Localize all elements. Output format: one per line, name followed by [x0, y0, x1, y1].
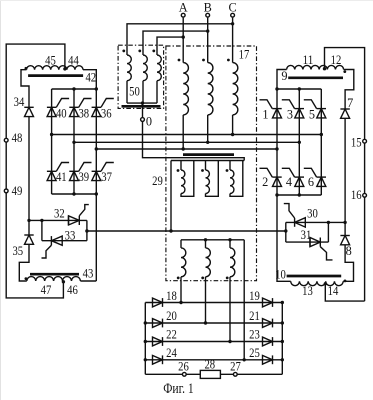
wire right column 5 — [320, 89, 322, 195]
svg-text:0: 0 — [146, 114, 152, 128]
wire phase bus 3 — [95, 147, 279, 150]
wire winding 13/14 tap — [325, 284, 364, 301]
wire feeder B to winding 50.2 — [143, 29, 209, 55]
node C terminal — [228, 0, 236, 17]
svg-text:24: 24 — [166, 346, 177, 360]
svg-text:8: 8 — [346, 244, 352, 258]
thyristor 31 — [301, 228, 333, 260]
winding 29.5 — [201, 240, 210, 279]
svg-text:29: 29 — [152, 174, 163, 188]
svg-text:43: 43 — [83, 266, 94, 280]
winding 50.3 — [152, 50, 161, 104]
svg-text:42: 42 — [85, 70, 96, 84]
svg-text:12: 12 — [331, 53, 342, 67]
svg-text:21: 21 — [249, 309, 260, 323]
thyristor 39 — [69, 163, 91, 184]
transformer 17 label — [239, 47, 250, 61]
winding 17.A — [178, 59, 189, 149]
svg-text:6: 6 — [308, 175, 314, 189]
wire row 20/21 — [145, 322, 282, 324]
svg-text:47: 47 — [41, 283, 52, 297]
core of transformer 50 — [122, 105, 161, 108]
diode 21 — [249, 309, 272, 328]
svg-text:Фиг. 1: Фиг. 1 — [163, 381, 194, 397]
node A terminal — [179, 0, 188, 17]
svg-text:11: 11 — [303, 53, 314, 67]
wire loop30 right side — [327, 222, 329, 242]
core of transformer 17 — [183, 153, 234, 156]
svg-text:19: 19 — [249, 289, 260, 303]
thyristor 3 — [282, 100, 304, 122]
wire loop32 bottom line — [42, 240, 87, 242]
diode 8 — [340, 236, 351, 259]
svg-text:B: B — [204, 0, 212, 14]
svg-text:22: 22 — [166, 328, 177, 342]
svg-text:40: 40 — [56, 106, 67, 120]
wire left column 2 — [73, 89, 75, 194]
wire winding12 to diode 7 — [344, 70, 354, 110]
node 26 terminal — [178, 359, 189, 376]
wire 0 line — [143, 122, 245, 161]
winding 17.B — [202, 59, 213, 143]
svg-text:45: 45 — [45, 53, 56, 67]
wire top-left link — [6, 44, 65, 298]
svg-text:5: 5 — [309, 107, 315, 121]
diode 20 — [153, 309, 177, 328]
svg-text:16: 16 — [351, 188, 362, 202]
thyristor 33 — [42, 228, 76, 258]
wire loop30 bottom line — [286, 241, 329, 243]
wire phase bus 2 — [72, 141, 301, 144]
wire left column 1 — [51, 89, 53, 194]
resistor 28 — [200, 357, 220, 378]
svg-text:13: 13 — [302, 284, 313, 298]
winding 17.C — [227, 59, 238, 135]
thyristor 32 — [54, 205, 89, 225]
wire winding45 to diode 34 — [21, 70, 29, 108]
svg-text:48: 48 — [12, 131, 23, 145]
wire 50 star point — [127, 101, 157, 104]
svg-text:10: 10 — [275, 268, 286, 282]
wire bottom right bus — [281, 301, 284, 375]
core of transformer 42 — [28, 70, 96, 84]
wire right column 3 — [298, 89, 300, 195]
svg-text:A: A — [179, 0, 188, 14]
svg-text:4: 4 — [286, 175, 292, 189]
diode 25 — [249, 346, 272, 364]
wire top-right link — [325, 48, 365, 302]
wire loop32 left side — [41, 220, 43, 240]
svg-text:18: 18 — [166, 289, 177, 303]
node 49 terminal — [4, 184, 22, 198]
wire right cathode bus — [277, 193, 321, 196]
svg-text:23: 23 — [249, 328, 260, 342]
wire link line — [87, 229, 288, 232]
thyristor 37 — [92, 163, 114, 184]
wire 29 upper left side — [170, 161, 172, 232]
core of transformer 10 — [275, 268, 341, 282]
svg-text:2: 2 — [262, 175, 268, 189]
node 27 terminal — [230, 359, 241, 376]
wire loop30 top line — [286, 221, 345, 224]
winding 29.1 — [177, 161, 194, 197]
node B terminal — [204, 0, 212, 17]
svg-text:33: 33 — [65, 228, 76, 242]
svg-text:14: 14 — [328, 284, 339, 298]
wire row 22/23 — [145, 341, 282, 343]
wire feeder A to winding 50.3 — [157, 35, 185, 55]
transformer 29 label — [152, 174, 163, 188]
wire phase B vertical — [207, 18, 209, 63]
thyristor 1 — [260, 100, 282, 122]
winding 29.6 — [226, 240, 235, 279]
diode 24 — [153, 346, 177, 364]
wire diode8 to winding 13 — [343, 222, 353, 281]
thyristor 5 — [304, 100, 326, 122]
wire diode34 to loop — [27, 117, 30, 222]
wire winding46 right end — [80, 280, 96, 282]
diode 22 — [153, 328, 177, 346]
svg-text:37: 37 — [101, 170, 112, 184]
wire 29 upper bus — [171, 160, 244, 162]
diode 35 — [12, 235, 33, 258]
winding 50.1 — [122, 50, 131, 104]
svg-text:3: 3 — [287, 107, 293, 121]
winding 29.4 — [177, 240, 186, 279]
transformer 17/29 enclosure (dash-dot) — [166, 46, 257, 281]
svg-text:36: 36 — [101, 106, 112, 120]
svg-text:49: 49 — [12, 184, 23, 198]
svg-text:46: 46 — [67, 283, 78, 297]
node 16 terminal — [351, 188, 367, 202]
wire row 24/25 — [145, 359, 282, 361]
wire 29 lower bus to row 24 — [243, 240, 246, 362]
wire bottom left bus — [144, 303, 147, 375]
core of transformer 9 — [288, 76, 343, 79]
wire phase bus 1 — [50, 133, 323, 136]
wire phase C vertical — [232, 18, 234, 63]
diode 23 — [249, 328, 272, 346]
node 15 terminal — [351, 135, 367, 149]
wire 29.4 to row 18 — [179, 277, 182, 304]
caption — [163, 381, 194, 397]
thyristor 36 — [92, 99, 114, 121]
thyristor 41 — [47, 163, 69, 184]
thyristor 38 — [69, 99, 91, 121]
svg-text:27: 27 — [230, 359, 241, 373]
svg-text:25: 25 — [249, 346, 260, 360]
winding 29.2 — [201, 161, 218, 197]
node 0 terminal — [141, 103, 152, 128]
winding 47/46 — [25, 277, 81, 297]
svg-text:30: 30 — [307, 207, 318, 221]
svg-text:17: 17 — [239, 47, 250, 61]
wire winding9 to right bridge — [277, 70, 287, 90]
core of transformer 43 — [30, 266, 93, 280]
winding 10/13/14 — [291, 280, 347, 298]
thyristor 30 — [284, 204, 318, 228]
thyristor 2 — [260, 168, 282, 189]
thyristor 4 — [282, 168, 304, 189]
winding 29.3 — [226, 161, 243, 197]
wire 29 lower bus — [181, 238, 244, 241]
node 48 terminal — [4, 131, 22, 145]
wire right column 1 — [275, 89, 278, 197]
winding 45/44 — [25, 53, 84, 70]
thyristor 40 — [47, 99, 69, 121]
wire loop30 left side — [285, 222, 287, 242]
svg-text:32: 32 — [54, 207, 65, 221]
wire feeder C to winding 50.1 — [127, 22, 234, 55]
svg-text:20: 20 — [166, 309, 177, 323]
thyristor 6 — [304, 168, 326, 189]
wire bridge to winding 10 — [277, 195, 291, 281]
wire 29.5 to row 20 — [204, 277, 207, 325]
wire left cathode bus — [52, 192, 97, 195]
svg-text:50: 50 — [129, 84, 140, 98]
wire loop32 right side — [85, 220, 88, 240]
wire left column 3 — [95, 89, 98, 281]
svg-text:34: 34 — [14, 95, 25, 109]
wire phase A vertical — [182, 18, 184, 63]
svg-text:31: 31 — [301, 228, 312, 242]
wire right anode bus — [275, 87, 321, 90]
svg-text:15: 15 — [351, 135, 362, 149]
svg-text:26: 26 — [178, 359, 189, 373]
diode 18 — [153, 289, 177, 307]
wire left anode bus — [52, 87, 98, 90]
svg-text:1: 1 — [262, 107, 268, 121]
winding 9/11/12 — [281, 53, 346, 83]
wire loop32 top line — [29, 219, 87, 222]
diode 7 — [340, 96, 353, 118]
svg-text:7: 7 — [347, 96, 353, 110]
svg-text:9: 9 — [281, 69, 287, 83]
svg-text:44: 44 — [68, 53, 79, 67]
winding 50.2 — [138, 50, 147, 104]
svg-text:41: 41 — [56, 170, 67, 184]
diode 34 — [14, 95, 34, 117]
transformer 50 label — [129, 84, 140, 98]
svg-text:35: 35 — [12, 244, 23, 258]
svg-text:38: 38 — [78, 106, 89, 120]
svg-text:28: 28 — [204, 357, 215, 371]
wire winding44 to left bridge — [83, 70, 96, 89]
wire diode35 to winding 47 — [19, 220, 29, 281]
wire 29.6 to row 22 — [228, 277, 231, 343]
diode 19 — [249, 289, 272, 307]
transformer 50 enclosure (dash-dot) — [118, 45, 164, 108]
svg-text:39: 39 — [78, 170, 89, 184]
scan edge shading — [0, 0, 2, 400]
svg-text:C: C — [228, 0, 236, 14]
wire diode7 to loop — [343, 118, 346, 224]
wire bottom rail — [145, 373, 282, 375]
wire row 18/19 — [145, 302, 282, 304]
